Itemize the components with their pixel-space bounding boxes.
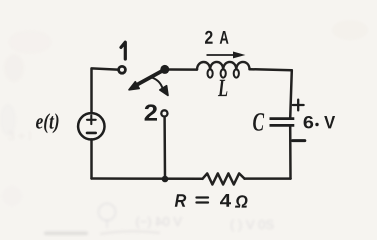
voltage source e(t) circle U1	[78, 113, 104, 139]
current arrow 2A	[207, 54, 235, 56]
switch pivot dot	[160, 65, 169, 74]
switch terminal 1 circle	[119, 66, 126, 73]
wire bottom: resistor to right corner	[245, 177, 291, 180]
label 6 V capacitor voltage	[304, 116, 314, 128]
wire top: inductor to top-right corner	[250, 69, 292, 70]
wire bottom: left corner to resistor	[92, 177, 203, 180]
switch terminal 2 circle	[161, 110, 167, 116]
resistor R zigzag	[203, 173, 245, 184]
switch blade SW1	[138, 69, 165, 84]
capacitor C bottom plate	[270, 124, 295, 127]
capacitor plus sign	[293, 100, 304, 111]
svg-text:( ) V 0S: ( ) V 0S	[230, 217, 274, 232]
label e(t) source	[36, 113, 59, 133]
label L inductor	[218, 80, 228, 96]
inductor L coil humps	[197, 62, 250, 70]
wire from terminal 2 down to bottom junction	[163, 118, 166, 179]
capacitor minus sign	[293, 139, 305, 142]
wire top: pivot to inductor	[169, 68, 197, 71]
switch blade arrowhead	[129, 82, 139, 90]
label 2 A current	[205, 31, 213, 44]
wire left branch: source top to corner to terminal 1	[92, 68, 118, 113]
inductor small loops	[208, 69, 239, 77]
label 2 (terminal 2)	[145, 104, 157, 120]
voltage source minus sign	[87, 132, 96, 135]
wire right: capacitor top plate up to top-right corner	[290, 70, 292, 118]
wire left branch below source down to bottom	[90, 139, 93, 178]
junction dot node between switch pos2 wire and bottom wire	[162, 176, 169, 183]
switch motion curved arrow	[151, 77, 163, 89]
voltage source plus sign	[87, 116, 96, 125]
label 1 (terminal 1)	[121, 42, 125, 59]
capacitor C top plate	[270, 117, 295, 120]
wire right: bottom corner up to capacitor bottom plate	[289, 126, 292, 178]
svg-text:V 04 (−): V 04 (−)	[135, 214, 182, 229]
label C capacitor	[253, 113, 264, 131]
switch motion arrowhead	[160, 86, 168, 96]
label R = 4 ohm	[175, 194, 186, 207]
